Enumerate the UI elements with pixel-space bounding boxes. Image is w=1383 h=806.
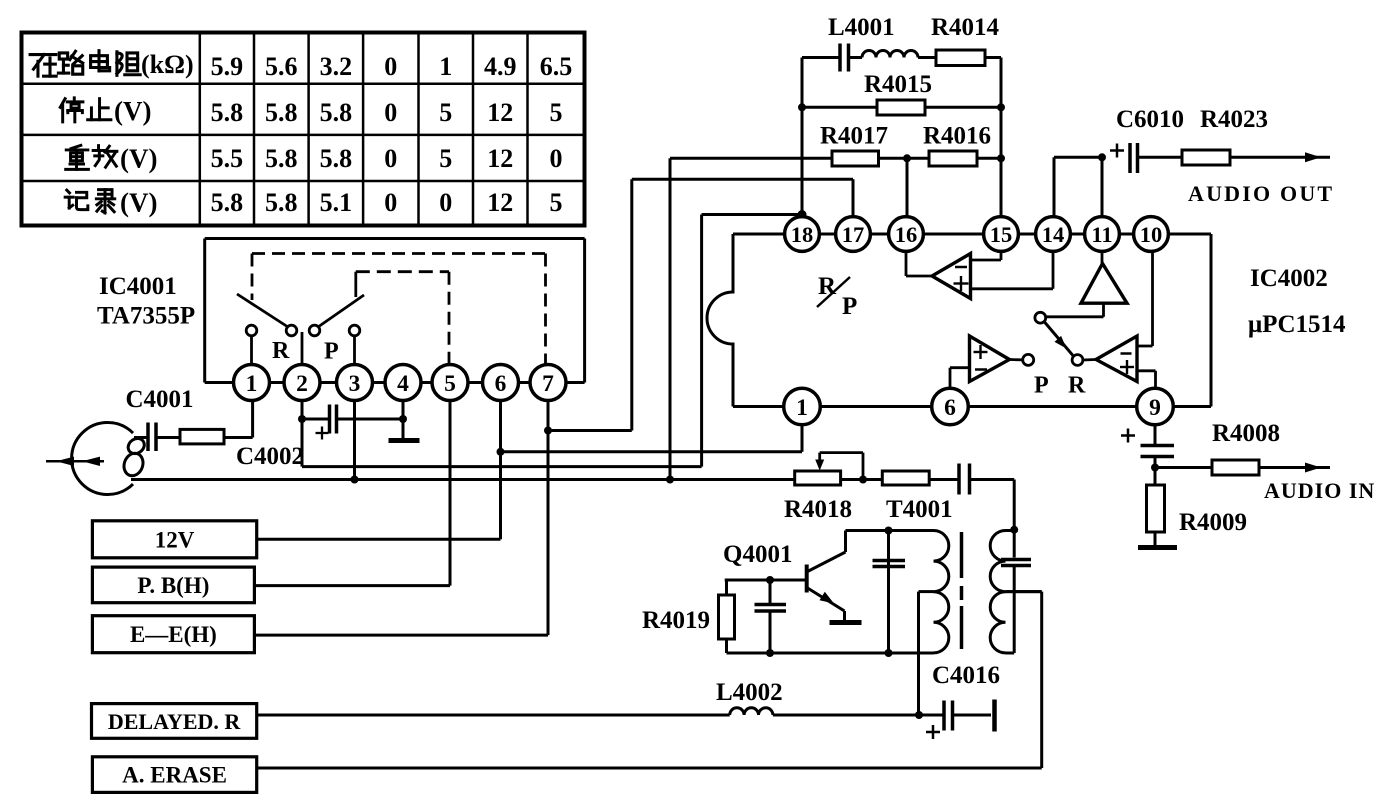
svg-text:5.5: 5.5 [211,144,244,173]
svg-text:16: 16 [895,222,918,247]
svg-text:R4023: R4023 [1200,106,1268,133]
svg-text:A. ERASE: A. ERASE [122,763,227,788]
svg-text:5: 5 [439,98,452,127]
svg-text:R4014: R4014 [931,14,1000,41]
svg-text:12V: 12V [155,527,195,552]
svg-text:4.9: 4.9 [484,52,517,81]
svg-text:C6010: C6010 [1116,106,1184,133]
svg-text:14: 14 [1042,222,1065,247]
svg-text:P: P [842,293,857,320]
svg-text:5.6: 5.6 [265,52,298,81]
svg-text:5: 5 [444,371,456,397]
svg-text:5.8: 5.8 [265,98,298,127]
svg-text:6: 6 [495,371,507,397]
svg-text:R4009: R4009 [1179,509,1247,536]
svg-text:R: R [1068,373,1086,399]
svg-text:R4015: R4015 [864,71,932,98]
svg-text:5.8: 5.8 [265,144,298,173]
svg-text:0: 0 [384,52,397,81]
svg-text:5.8: 5.8 [211,188,244,217]
svg-text:12: 12 [487,98,513,127]
svg-text:12: 12 [487,188,513,217]
svg-text:5: 5 [439,144,452,173]
svg-text:(kΩ): (kΩ) [141,50,194,79]
svg-text:0: 0 [550,144,563,173]
svg-text:10: 10 [1140,222,1163,247]
svg-text:15: 15 [990,222,1013,247]
svg-text:5.1: 5.1 [320,188,353,217]
svg-text:6.5: 6.5 [540,52,573,81]
svg-text:R4018: R4018 [784,496,852,523]
svg-text:3.2: 3.2 [320,52,353,81]
svg-text:1: 1 [246,371,258,397]
svg-text:7: 7 [542,371,554,397]
svg-text:R4017: R4017 [820,123,888,150]
svg-text:R4016: R4016 [923,123,991,150]
svg-text:0: 0 [384,144,397,173]
svg-text:5.8: 5.8 [320,98,353,127]
svg-text:T4001: T4001 [886,496,953,523]
svg-text:IC4002: IC4002 [1250,265,1328,292]
svg-text:1: 1 [439,52,452,81]
svg-text:2: 2 [296,371,308,397]
svg-text:AUDIO IN: AUDIO IN [1264,478,1375,503]
svg-text:E—E(H): E—E(H) [130,622,217,647]
svg-text:R4008: R4008 [1212,420,1280,447]
svg-text:18: 18 [791,222,814,247]
svg-text:AUDIO OUT: AUDIO OUT [1188,181,1334,206]
svg-text:4: 4 [397,371,409,397]
svg-text:P: P [324,339,339,365]
svg-text:R: R [272,338,290,364]
svg-text:(V): (V) [120,144,157,174]
svg-text:P. B(H): P. B(H) [137,573,209,598]
svg-text:L4002: L4002 [716,679,783,706]
svg-text:11: 11 [1091,222,1112,247]
svg-text:12: 12 [487,144,513,173]
svg-text:0: 0 [384,188,397,217]
svg-text:C4002: C4002 [236,443,304,470]
svg-text:(V): (V) [114,96,151,126]
svg-text:5: 5 [550,188,563,217]
svg-text:C4016: C4016 [932,662,1000,689]
svg-text:C4001: C4001 [126,386,194,413]
svg-text:(V): (V) [120,188,157,218]
svg-text:9: 9 [1149,395,1161,421]
svg-text:Q4001: Q4001 [723,541,792,568]
svg-text:5.9: 5.9 [211,52,244,81]
svg-text:5: 5 [550,98,563,127]
svg-text:5.8: 5.8 [211,98,244,127]
svg-text:R4019: R4019 [642,607,710,634]
svg-text:0: 0 [439,188,452,217]
svg-text:μPC1514: μPC1514 [1248,311,1346,338]
svg-text:P: P [1034,373,1049,399]
svg-text:3: 3 [349,371,361,397]
svg-text:L4001: L4001 [828,14,895,41]
svg-text:5.8: 5.8 [265,188,298,217]
svg-text:17: 17 [842,222,865,247]
svg-text:TA7355P: TA7355P [97,303,195,330]
svg-text:DELAYED. R: DELAYED. R [108,709,242,734]
svg-text:6: 6 [944,395,956,421]
svg-text:5.8: 5.8 [320,144,353,173]
svg-text:0: 0 [384,98,397,127]
svg-text:1: 1 [796,395,808,421]
svg-text:IC4001: IC4001 [99,273,177,300]
